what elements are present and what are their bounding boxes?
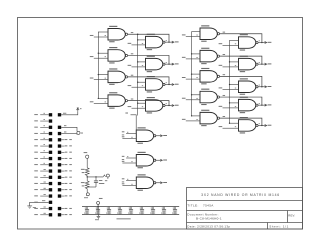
wire D2 output [258, 63, 266, 65]
node DO2 [265, 104, 267, 106]
power symbol VCC arrow (top) [77, 109, 79, 112]
node LN2 [172, 63, 174, 65]
NAND gate U22C [200, 68, 220, 84]
NAND gate U23D [239, 97, 259, 113]
wire R27 to ground [86, 189, 88, 193]
wire net C3OUT wired-OR [220, 76, 262, 86]
svg-text:Date: 2/28/2013 07:56:13p: Date: 2/28/2013 07:56:13p [187, 225, 230, 229]
sheet border frame [18, 18, 303, 230]
wire net C5OUT wired-OR [220, 118, 262, 125]
ground rail (cap row) [82, 214, 179, 216]
capacitor C15 0.1uF [128, 207, 133, 215]
bus node col D inputs [229, 40, 231, 123]
NAND gate U23B [239, 56, 259, 72]
power port VCC (chain top) [84, 151, 88, 154]
NAND gate U21C [108, 68, 128, 84]
wire D4 output [258, 104, 266, 106]
capacitor C19 0.1uF [172, 207, 177, 215]
connector pin row 15 left [34, 201, 38, 204]
node LN3 [172, 83, 174, 85]
svg-text:Sheet: 1/1: Sheet: 1/1 [269, 225, 289, 229]
node EN2 [160, 159, 162, 161]
wire U25C bottom input net 7D [122, 185, 136, 187]
connector pin row 8 left [34, 157, 38, 160]
wire C2 top input [192, 53, 200, 55]
wire junction to port [87, 176, 103, 178]
wire D1 top input [230, 39, 239, 41]
NAND gate U22E [200, 110, 220, 126]
wire C4 top input [192, 94, 200, 96]
connector pin row 10 right [58, 169, 61, 172]
NAND gate U21B [108, 47, 128, 63]
wire U25A top input net 5C [126, 133, 136, 135]
node EO2 [265, 124, 267, 126]
connector pin row 13 right [58, 188, 61, 191]
node BO2 [265, 63, 267, 65]
wire C5 top input [192, 115, 200, 117]
wire VCC to R26 [86, 158, 88, 168]
wire C1 bottom input net 3D0 [186, 36, 200, 38]
wire A1 bottom input net 1B0 [94, 36, 108, 38]
svg-text:REV:: REV: [288, 213, 295, 217]
wire D2 top input [230, 61, 239, 63]
wire B1 output [165, 41, 173, 43]
capacitor C18 0.1uF [161, 207, 166, 215]
wire C5 bottom input net 3D4 [186, 120, 200, 122]
wire C4 bottom input net 3D3 [186, 99, 200, 101]
bus node col B inputs [137, 34, 139, 115]
capacitor C20 [95, 177, 97, 181]
capacitor C17 0.1uF [150, 207, 155, 215]
wire B4 output [165, 104, 173, 106]
wire B2 top input [138, 61, 146, 63]
capacitor C11 0.1uF [84, 207, 89, 215]
wire B2 output [165, 63, 173, 65]
wire B4 bottom input net 2C3 [132, 107, 146, 109]
wire D4 bottom input net 4E3 [223, 107, 239, 109]
wire B1 top input [138, 39, 146, 41]
connector pin row 12 left [34, 182, 38, 185]
ground symbol AGND chain [86, 193, 89, 196]
wire U25B top input net 6C [126, 157, 136, 159]
wire R26 to R27 junction [86, 176, 88, 181]
ground symbol left [27, 205, 32, 207]
resistor R26 [85, 168, 89, 176]
connector pin row 11 right [58, 176, 61, 179]
connector pin row 6 right [58, 144, 61, 147]
wire net A2OUT wired-OR [128, 55, 169, 64]
wire D1 output [258, 42, 266, 44]
power port VCC circle (rows 3-4) [77, 131, 80, 134]
wire D5 bottom input net 4E4 [223, 127, 239, 129]
wire to VCC port row4 [61, 133, 76, 135]
connector pin row 1 left [34, 113, 38, 116]
node EN1 [160, 135, 162, 137]
wire B3 bottom input net 2C2 [132, 86, 146, 88]
node CO2 [265, 86, 267, 88]
connector pin row 13 left [34, 188, 38, 191]
wire A3 top input [98, 74, 108, 76]
wire net 5C feeder [125, 112, 128, 115]
wire B1 bottom input net 2C0 [132, 44, 146, 46]
wire U25B output [156, 159, 162, 161]
svg-text:B-C8-M146H0-1: B-C8-M146H0-1 [196, 217, 222, 221]
wire C2 bottom input net 3D1 [186, 58, 200, 60]
connector pin row 5 left [34, 138, 38, 141]
NAND gate U23A [239, 34, 259, 50]
wire net A3OUT wired-OR [128, 77, 169, 85]
svg-text:3X2 NAND WIRED OR MATRIX M146: 3X2 NAND WIRED OR MATRIX M146 [201, 193, 280, 197]
connector pin row 10 left [34, 169, 38, 172]
wire U25C output [156, 182, 162, 184]
wire A2 top input [98, 52, 108, 54]
wire U25A output [156, 135, 162, 137]
wire D1 bottom input net 4E0 [223, 44, 239, 46]
connector pin row 1 right [58, 113, 61, 116]
note label caps [117, 217, 131, 220]
connector pin row 3 left [34, 126, 38, 129]
connector pin row 7 right [58, 151, 61, 154]
node LN4 [172, 104, 174, 106]
NAND gate U22A [200, 25, 220, 41]
connector pin row 12 right [58, 182, 61, 185]
wire A4 top input [98, 97, 108, 99]
wire net C1OUT wired-OR [220, 34, 262, 43]
wire B3 top input [138, 81, 146, 83]
connector pin row 17 left [34, 213, 38, 216]
node TP arrow [103, 175, 105, 177]
connector pin row 14 right [58, 194, 61, 197]
ground symbol AGND cap row [97, 215, 99, 217]
wire A2 bottom input net 1B1 [94, 57, 108, 59]
input bus node col C [191, 32, 193, 116]
node AO2 [265, 41, 267, 43]
connector pin row 4 left [34, 132, 38, 135]
wire net A1OUT wired-OR [128, 34, 169, 42]
node EN3 [160, 182, 162, 184]
wire A3 bottom input net 1B2 [94, 79, 108, 81]
svg-text:7545A: 7545A [203, 203, 214, 207]
NAND gate U24B [146, 56, 166, 72]
connector pin row 5 right [58, 138, 61, 141]
NAND gate U21D [108, 92, 128, 108]
wire VCC feed [97, 204, 99, 214]
NAND gate U25C [136, 174, 156, 190]
NAND gate U22D [200, 89, 220, 105]
connector pin row 9 left [34, 163, 38, 166]
wire D3 top input [230, 84, 239, 86]
power port VCC cap row [99, 197, 103, 200]
svg-text:TITLE:: TITLE: [187, 203, 198, 207]
connector pin row 6 left [34, 144, 38, 147]
capacitor C13 0.1uF [106, 207, 111, 215]
capacitor C16 0.1uF [139, 207, 144, 215]
wire A1 top input [98, 31, 108, 33]
title block [187, 188, 303, 230]
wire D4 top input [230, 102, 239, 104]
NAND gate U23E [239, 117, 259, 133]
connector pin row 8 right [58, 157, 61, 160]
NAND gate U25B [136, 152, 156, 168]
wire C1 top input [192, 31, 200, 33]
wire VCC feed row1 [61, 111, 78, 115]
node LN1 [172, 41, 174, 43]
wire D3 output [258, 86, 266, 88]
connector pin row 2 left [34, 119, 38, 122]
wire U25B bottom input net 6D [122, 162, 136, 164]
connector pin row 9 right [58, 163, 61, 166]
NAND gate U25A [136, 127, 156, 143]
connector pin row 7 left [34, 151, 38, 154]
wire B2 bottom input net 2C1 [132, 66, 146, 68]
wire row15 to ground [30, 202, 49, 206]
connector pin row 3 right [58, 126, 61, 129]
resistor R27 [85, 181, 89, 189]
connector pin row 14 left [34, 194, 38, 197]
wire net A4OUT wired-OR [128, 101, 169, 106]
wire D5 output [258, 124, 266, 126]
wire D5 top input [230, 122, 239, 124]
capacitor C14 0.1uF [117, 207, 122, 215]
wire B4 top input [138, 102, 146, 104]
power port circle right [106, 174, 109, 177]
wire D2 bottom input net 4E1 [223, 66, 239, 68]
NAND gate U24A [146, 34, 166, 50]
input bus node col A [97, 32, 99, 99]
NAND gate U23C [239, 78, 259, 94]
connector pin row 17 right [58, 213, 61, 216]
connector pin row 16 left [34, 207, 38, 210]
wire to VCC port row3 [61, 127, 77, 131]
capacitor C12 0.1uF [95, 207, 100, 215]
NAND gate U22B [200, 48, 220, 64]
wire net C4OUT wired-OR [220, 97, 262, 105]
connector pin row 16 right [58, 207, 61, 210]
wire C3 bottom input net 3D2 [186, 78, 200, 80]
wire net C2OUT wired-OR [220, 56, 262, 64]
wire D3 bottom input net 4E2 [223, 89, 239, 91]
NAND gate U24D [146, 97, 166, 113]
wire U25C top input net 7C [126, 180, 136, 182]
connector pin row 11 left [34, 176, 38, 179]
power rail VCC (cap row) [82, 206, 179, 208]
wire B3 output [165, 83, 173, 85]
connector pin row 4 right [58, 132, 61, 135]
wire C3 top input [192, 73, 200, 75]
wire U25A bottom input net 5D [122, 138, 136, 140]
NAND gate U24C [146, 76, 166, 92]
wire A4 bottom input net 1B3 [94, 102, 108, 104]
NAND gate U21A [108, 26, 128, 42]
